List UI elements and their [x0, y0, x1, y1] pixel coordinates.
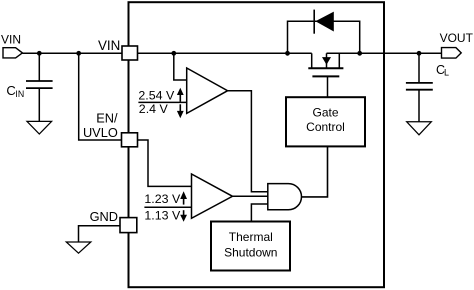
- capacitor CL label: [436, 63, 449, 78]
- node diode right: [357, 51, 362, 56]
- svg-text:Gate: Gate: [312, 106, 338, 120]
- ground GND: [66, 242, 91, 253]
- svg-text:GND: GND: [90, 209, 118, 224]
- ground CL: [407, 122, 432, 135]
- svg-text:C: C: [6, 83, 15, 98]
- svg-text:VIN: VIN: [98, 38, 120, 53]
- arrow down U2 threshold: [180, 210, 187, 222]
- capacitor CIN plates: [26, 81, 53, 88]
- node EN tap: [76, 51, 81, 56]
- wire U2 minus input: [144, 206, 191, 208]
- arrow down U1 threshold: [177, 104, 184, 118]
- arrow up U1 threshold: [177, 88, 184, 102]
- pin EN/UVLO box: [122, 133, 138, 147]
- wire MOSFET body/source to VOUT tag: [327, 52, 442, 54]
- AND gate: [268, 184, 302, 210]
- svg-text:L: L: [444, 68, 449, 78]
- node diode left: [285, 51, 290, 56]
- wire U1 plus input: [174, 53, 187, 80]
- svg-text:UVLO: UVLO: [83, 125, 118, 140]
- node CIN tap: [37, 51, 42, 56]
- svg-text:2.4 V: 2.4 V: [139, 102, 169, 116]
- pin GND box: [120, 218, 137, 233]
- wire CL top: [418, 53, 420, 83]
- wire EN pin to comparator U2: [138, 140, 192, 186]
- port VOUT tag: [442, 48, 462, 59]
- svg-text:1.13 V: 1.13 V: [144, 209, 181, 223]
- node comparator U1 tap: [171, 51, 176, 56]
- svg-text:VOUT: VOUT: [440, 31, 474, 45]
- wire U1 minus input: [138, 101, 186, 103]
- wire CIN top: [38, 53, 40, 81]
- wire U1 output to AND gate: [228, 91, 268, 192]
- svg-text:IN: IN: [15, 89, 24, 99]
- arrow up U2 threshold: [180, 191, 187, 204]
- capacitor CL plates: [406, 83, 433, 90]
- svg-text:2.54 V: 2.54 V: [138, 88, 175, 102]
- pin VIN box: [122, 46, 138, 60]
- comparator U2: [192, 174, 233, 218]
- wire VIN tag to VIN pin: [22, 52, 124, 54]
- svg-text:Control: Control: [306, 120, 345, 134]
- block Thermal Shutdown: [211, 222, 290, 271]
- wire EN tap down and to EN pin: [79, 53, 123, 140]
- ground CIN: [27, 121, 52, 134]
- pin EN/UVLO label: [83, 110, 118, 140]
- port VIN tag: [3, 48, 22, 58]
- block Gate Control: [286, 97, 365, 146]
- wire AND output to gate control: [302, 146, 328, 197]
- transistor Q1 pass FET: [308, 53, 343, 76]
- node CL tap: [417, 51, 422, 56]
- wire U2 output to AND gate: [233, 195, 268, 197]
- wire CL bottom: [418, 90, 420, 122]
- svg-text:EN/: EN/: [96, 110, 118, 125]
- capacitor CIN label: [6, 83, 24, 99]
- svg-text:Shutdown: Shutdown: [224, 245, 277, 259]
- IC boundary: [129, 2, 385, 287]
- svg-text:VIN: VIN: [1, 33, 21, 47]
- wire CIN bottom: [38, 88, 40, 121]
- comparator U1: [187, 68, 228, 113]
- wire VIN pin to MOSFET drain: [136, 52, 312, 54]
- wire gate control to MOSFET gate: [327, 76, 329, 97]
- wire thermal shutdown to AND gate: [251, 204, 267, 222]
- svg-text:Thermal: Thermal: [229, 230, 273, 244]
- diode D1 body diode: [314, 10, 334, 34]
- wire GND pin to ground: [79, 226, 121, 242]
- wire body diode loop: [288, 21, 360, 53]
- svg-text:1.23 V: 1.23 V: [144, 192, 181, 206]
